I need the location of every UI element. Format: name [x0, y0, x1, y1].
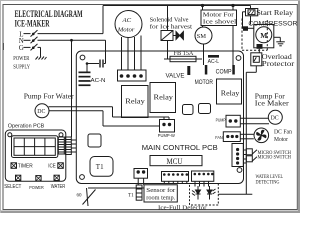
svg-text:SUPPLY: SUPPLY	[13, 64, 30, 71]
svg-text:PUMP: PUMP	[216, 117, 226, 123]
svg-text:Pump For Water: Pump For Water	[24, 93, 75, 101]
svg-text:Motor: Motor	[117, 27, 135, 34]
svg-text:SM: SM	[197, 33, 207, 40]
svg-text:MAIN CONTROL PCB: MAIN CONTROL PCB	[142, 143, 218, 152]
svg-text:Relay: Relay	[125, 97, 144, 106]
svg-text:TIMER: TIMER	[18, 164, 33, 170]
svg-text:POWER: POWER	[13, 55, 29, 62]
svg-text:Operation PCB: Operation PCB	[8, 124, 45, 130]
svg-text:AC: AC	[122, 17, 132, 24]
svg-text:DETECTING: DETECTING	[256, 180, 280, 185]
svg-text:Sensor for: Sensor for	[146, 187, 176, 193]
svg-text:DC: DC	[271, 116, 279, 122]
svg-text:PUMP-W: PUMP-W	[158, 133, 176, 138]
svg-text:Start Relay: Start Relay	[256, 8, 293, 16]
svg-text:DC: DC	[37, 109, 45, 115]
svg-text:Ice-Full Detector: Ice-Full Detector	[158, 205, 207, 212]
svg-text:G: G	[19, 44, 24, 52]
svg-text:Protector: Protector	[262, 60, 295, 68]
svg-text:Relay: Relay	[154, 93, 173, 102]
svg-text:Ice Maker: Ice Maker	[255, 99, 289, 107]
svg-text:ICE: ICE	[48, 163, 55, 169]
svg-text:Relay: Relay	[221, 88, 240, 97]
svg-text:ICE-MAKER: ICE-MAKER	[15, 18, 50, 29]
svg-text:60: 60	[77, 194, 83, 199]
svg-text:FB 15A: FB 15A	[174, 51, 195, 57]
svg-text:AC-N: AC-N	[91, 78, 106, 84]
svg-text:MOTOR: MOTOR	[195, 79, 213, 86]
svg-text:POWER: POWER	[29, 184, 43, 190]
svg-text:COMP: COMP	[216, 69, 232, 75]
svg-text:T1: T1	[128, 193, 134, 199]
svg-text:M: M	[260, 31, 267, 40]
svg-text:COMPRESSOR: COMPRESSOR	[248, 20, 297, 27]
svg-text:MCU: MCU	[167, 157, 184, 167]
svg-text:VALVE: VALVE	[166, 72, 185, 79]
svg-text:WATER: WATER	[51, 183, 66, 188]
svg-text:room temp.: room temp.	[146, 195, 175, 201]
svg-text:DC Fan: DC Fan	[274, 129, 292, 135]
svg-text:MICRO SWITCH: MICRO SWITCH	[258, 155, 292, 160]
svg-text:AC-L: AC-L	[208, 59, 220, 65]
svg-text:Ice shovel: Ice shovel	[203, 17, 236, 25]
svg-text:FAN: FAN	[215, 135, 223, 140]
svg-text:SELECT: SELECT	[4, 184, 21, 189]
svg-text:T1: T1	[96, 163, 104, 171]
svg-text:for Ice harvest: for Ice harvest	[150, 23, 193, 31]
svg-text:Motor: Motor	[274, 137, 288, 143]
